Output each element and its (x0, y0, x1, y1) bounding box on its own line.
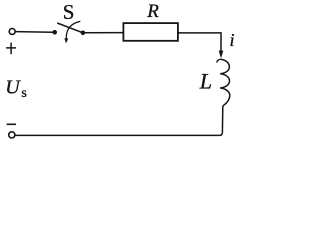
switch S (53, 21, 85, 42)
minus sign (7, 123, 16, 125)
terminal plus (top-left) (9, 29, 15, 35)
current arrow i (219, 51, 223, 58)
inductor L (217, 59, 230, 106)
svg-text:U: U (5, 77, 21, 99)
plus sign (6, 43, 16, 55)
svg-text:s: s (21, 86, 26, 101)
wire: inductor to bottom corner to bottom-left terminal (15, 106, 223, 135)
wire: switch to resistor (85, 32, 124, 34)
resistor R (123, 23, 177, 41)
terminal minus (bottom-left) (9, 132, 15, 138)
svg-text:S: S (63, 0, 75, 24)
wire: resistor to top-right corner and down (178, 33, 221, 51)
svg-text:L: L (199, 68, 212, 93)
svg-text:R: R (146, 1, 159, 22)
wire: top-left terminal to switch (15, 31, 53, 34)
svg-text:i: i (230, 30, 235, 50)
